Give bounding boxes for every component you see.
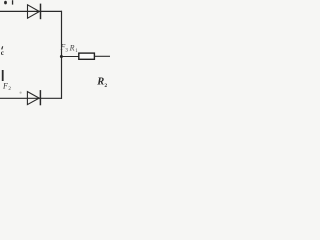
resistor R1 [79,53,95,59]
paper background [0,0,110,110]
node junction [60,55,63,58]
svg-text:R: R [96,76,104,87]
label R1 [69,43,79,54]
svg-text:R: R [69,43,75,52]
wire: top horizontal [0,10,62,12]
label Uc (cut off at left edge) [1,46,5,57]
label F3 [59,43,68,54]
label F1 (cut off at top edge) [4,0,13,4]
svg-text:F: F [2,81,8,90]
wire: middle horizontal right of resistor [94,55,110,57]
diode VD2 [27,90,40,105]
svg-text:2: 2 [104,83,107,89]
label fragment (cut off at left edge) [2,70,4,81]
noise speck [20,92,22,94]
wire: bottom horizontal [0,97,62,99]
label R2 [96,76,107,88]
label F2 [2,81,11,92]
diode VD1 [28,4,41,20]
wire: middle horizontal to resistor [61,56,78,58]
wire: right vertical [61,11,63,99]
